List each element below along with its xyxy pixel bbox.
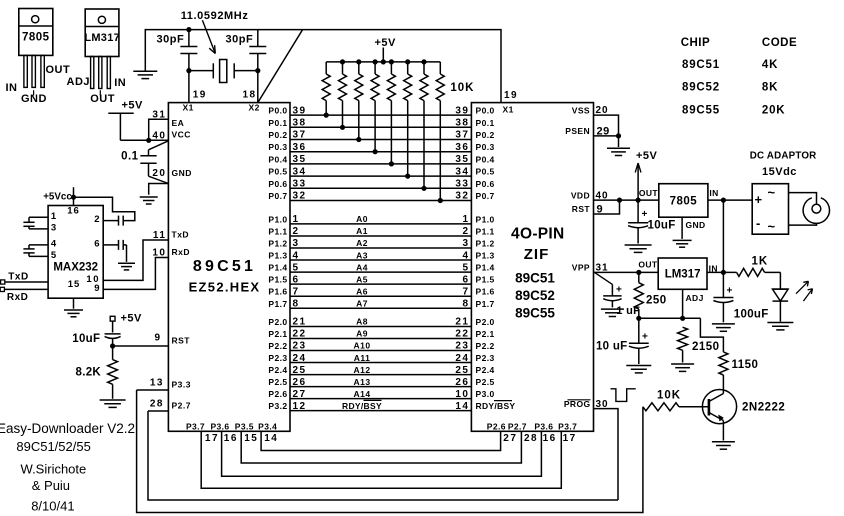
label P2.1 (ZIF) <box>476 329 495 339</box>
svg-text:LM317: LM317 <box>665 268 701 280</box>
svg-text:23: 23 <box>455 341 469 352</box>
svg-text:-: - <box>756 216 760 231</box>
pin number 35 (ZIF) <box>455 154 469 165</box>
svg-text:35: 35 <box>293 154 307 165</box>
pin number 17 (ZIF bottom) <box>563 433 577 444</box>
pin number 27 (89C51) <box>293 389 307 400</box>
pin RxD (10) wire to MAX232 pin9 <box>103 258 168 290</box>
svg-text:40: 40 <box>152 131 166 142</box>
pin number 19 (ZIF X1) <box>504 90 518 101</box>
svg-text:RST: RST <box>572 204 591 214</box>
+5Vcc stub and node <box>71 187 76 205</box>
title & Puiu <box>32 478 70 493</box>
label P0.5 (89C51) <box>268 167 287 177</box>
wire P0.2 row (89C51 pin 37 to ZIF) <box>290 139 471 141</box>
label P1.0 (89C51) <box>268 214 287 224</box>
voltage regulator LM317 box <box>658 258 707 289</box>
svg-text:21: 21 <box>455 317 469 328</box>
svg-text:OUT: OUT <box>46 64 71 76</box>
resistor 10K network element 6 <box>404 62 412 176</box>
wire 89C51 P2.7 to ZIF PROG <box>148 411 618 500</box>
svg-text:P1.2: P1.2 <box>476 239 495 249</box>
LED light arrows <box>796 281 813 301</box>
pin number 24 (89C51) <box>293 353 307 364</box>
label P1.5 (ZIF) <box>476 275 495 285</box>
crystal Y1 <box>189 60 258 83</box>
wire P2.1 row / net A9 <box>290 338 471 340</box>
svg-text:28: 28 <box>524 433 538 444</box>
svg-text:36: 36 <box>455 142 469 153</box>
ground (10uF VPP) <box>626 366 651 373</box>
label P0.4 (89C51) <box>268 154 287 164</box>
pin VDD (40) wire <box>594 199 659 201</box>
wire X2 to ZIF X1 <box>258 30 501 103</box>
label P0.2 (89C51) <box>268 130 287 140</box>
label DC ADAPTOR <box>750 151 817 162</box>
LED D1 <box>773 289 789 322</box>
svg-text:89C51: 89C51 <box>193 258 256 275</box>
svg-text:1 uF: 1 uF <box>616 305 640 317</box>
pin number 21 (ZIF) <box>455 317 469 328</box>
pin number 2 (89C51) <box>293 226 300 237</box>
svg-text:37: 37 <box>455 130 469 141</box>
pin 9 wire number <box>94 283 99 294</box>
label P1.3 (ZIF) <box>476 251 495 261</box>
pin ADJ stub (LM317) <box>682 289 684 318</box>
label GND <box>172 168 192 178</box>
label 30pF right <box>226 34 254 46</box>
text 40-PIN <box>511 226 564 243</box>
svg-text:7: 7 <box>462 286 469 297</box>
ground (89C51 GND pin) <box>140 197 158 204</box>
svg-text:A8: A8 <box>356 317 368 327</box>
label X2 inside 89C51 <box>249 103 260 113</box>
svg-text:CODE: CODE <box>762 37 797 49</box>
wire P2.2 row / net A10 <box>290 350 471 352</box>
label TxD (terminal) <box>8 272 28 283</box>
label P0.1 (89C51) <box>268 118 287 128</box>
pin number 18 (89C51 X2) <box>243 90 257 101</box>
resistor 2150 <box>678 327 688 362</box>
svg-text:2150: 2150 <box>692 341 720 353</box>
svg-text:23: 23 <box>293 341 307 352</box>
pin number 2 <box>94 214 99 225</box>
svg-text:4: 4 <box>51 238 57 249</box>
label P3.6 (ZIF bottom) <box>534 421 553 431</box>
net label A13 <box>353 377 370 387</box>
label PSEN <box>565 126 590 136</box>
node crystal left junction <box>186 68 191 73</box>
svg-text:89C52: 89C52 <box>682 82 720 94</box>
wire 89C51 P3.4 to ZIF P2.6 <box>261 431 501 450</box>
svg-text:18: 18 <box>243 90 257 101</box>
svg-text:10uF: 10uF <box>72 333 100 345</box>
svg-text:2: 2 <box>462 226 469 237</box>
pin number 16 (89C51 bottom) <box>224 433 238 444</box>
svg-text:ZIF: ZIF <box>524 246 550 263</box>
label ADJ (LM317) <box>686 293 704 303</box>
text ZIF <box>524 246 550 263</box>
svg-text:32: 32 <box>455 191 469 202</box>
svg-text:PSEN: PSEN <box>565 126 590 136</box>
pin number 2 (ZIF) <box>462 226 469 237</box>
pin number 22 (ZIF) <box>455 329 469 340</box>
svg-text:250: 250 <box>646 295 667 307</box>
label 0.1 <box>121 151 139 163</box>
pin number 16 (ZIF bottom) <box>543 433 557 444</box>
capacitor C1 (MAX232 pins 1-3) <box>23 217 48 229</box>
pin number 6 <box>94 238 99 249</box>
svg-text:P2.2: P2.2 <box>476 341 495 351</box>
wire DC adaptor to plug (top) <box>789 193 817 205</box>
svg-text:25: 25 <box>455 365 469 376</box>
wire P1.5 row / net A5 <box>290 283 471 285</box>
svg-text:RDY/BSY: RDY/BSY <box>476 401 516 411</box>
svg-text:100uF: 100uF <box>734 308 769 320</box>
svg-text:P1.6: P1.6 <box>268 287 287 297</box>
svg-text:A14: A14 <box>353 389 370 399</box>
svg-text:34: 34 <box>293 166 307 177</box>
label P1.0 (ZIF) <box>476 214 495 224</box>
capacitor C4 (MAX232 pin6) <box>103 240 126 262</box>
label IN (7805) <box>709 188 718 198</box>
svg-text:P0.4: P0.4 <box>268 154 287 164</box>
label P2.3 (ZIF) <box>476 353 495 363</box>
svg-text:VDD: VDD <box>571 190 590 200</box>
svg-text:33: 33 <box>293 179 307 190</box>
svg-text:P1.7: P1.7 <box>268 299 287 309</box>
svg-text:P0.3: P0.3 <box>476 142 495 152</box>
7805 pin label IN <box>6 82 18 94</box>
svg-text:P1.1: P1.1 <box>268 226 287 236</box>
label RDY/BSY (ZIF) <box>476 401 516 412</box>
svg-text:X2: X2 <box>249 103 260 113</box>
svg-text:3: 3 <box>462 238 469 249</box>
pin number 36 (89C51) <box>293 142 307 153</box>
capacitor C2 (MAX232 pins 4-5) <box>23 245 48 257</box>
label 10uF (reset) <box>72 333 100 345</box>
svg-text:38: 38 <box>293 118 307 129</box>
node bus junction <box>340 59 345 64</box>
svg-text:P0.7: P0.7 <box>268 191 287 201</box>
capacitor 10uF (reset) <box>105 334 121 346</box>
svg-text:P0.1: P0.1 <box>268 118 287 128</box>
wire P2.6 row / net A14 <box>290 398 471 400</box>
pin number 33 (89C51) <box>293 179 307 190</box>
svg-text:LM317: LM317 <box>84 32 120 44</box>
label P2.6 (ZIF bottom) <box>487 421 506 431</box>
+5V power tap (89C51 supply) <box>108 113 133 140</box>
label P0.0 (89C51) <box>268 106 287 116</box>
svg-text:P0.4: P0.4 <box>476 154 495 164</box>
label GND (7805) and stub <box>682 217 705 239</box>
node VDD cap junction <box>636 198 641 203</box>
svg-text:8: 8 <box>462 298 469 309</box>
wire ADJ node to 1150 <box>700 318 723 352</box>
label 30pF left <box>157 34 185 46</box>
svg-text:22: 22 <box>293 329 307 340</box>
resistor 10K (base) <box>643 403 709 411</box>
svg-text:OUT: OUT <box>90 93 115 105</box>
svg-text:P0.0: P0.0 <box>476 106 495 116</box>
label P0.7 (89C51) <box>268 191 287 201</box>
svg-text:X1: X1 <box>503 105 514 115</box>
capacitor 10uF (VDD) <box>628 200 648 243</box>
svg-text:+5V: +5V <box>122 100 144 112</box>
pin number 12 (89C51) <box>293 401 307 412</box>
pin number 37 (ZIF) <box>455 130 469 141</box>
svg-text:29: 29 <box>597 126 610 138</box>
svg-text:P3.7: P3.7 <box>558 421 577 431</box>
svg-text:DC ADAPTOR: DC ADAPTOR <box>750 151 817 162</box>
pin GND (20) wire <box>149 184 169 195</box>
wire P1.6 row / net A6 <box>290 295 471 297</box>
node P0.3 junction <box>373 149 378 154</box>
wire P2.0 row / net A8 <box>290 326 471 328</box>
label EA <box>172 118 185 128</box>
svg-text:30: 30 <box>596 399 609 410</box>
svg-text:10uF: 10uF <box>648 220 676 232</box>
wire DC adaptor to plug (bottom) <box>789 223 817 225</box>
capacitor 10uF (VPP adj) <box>629 318 649 364</box>
ground (100uF) <box>712 324 735 331</box>
svg-text:A12: A12 <box>353 365 370 375</box>
pin number 8 (ZIF) <box>462 298 469 309</box>
label P2.4 (89C51) <box>268 365 287 375</box>
pin number 24 (ZIF) <box>455 353 469 364</box>
wire P2.3 row / net A11 <box>290 362 471 364</box>
svg-text:4K: 4K <box>762 59 778 71</box>
label P3.3 (89C51 left) <box>172 380 192 390</box>
svg-text:P2.4: P2.4 <box>268 365 287 375</box>
wire +5Vcc to pin2 capacitor <box>74 197 135 220</box>
pin number 1 (89C51) <box>293 214 300 225</box>
svg-text:P3.0: P3.0 <box>476 389 495 399</box>
node P0.1 junction <box>340 125 345 130</box>
svg-text:2: 2 <box>293 226 300 237</box>
svg-text:27: 27 <box>503 433 517 444</box>
svg-text:9: 9 <box>154 333 161 344</box>
text EZ52.HEX <box>189 280 261 295</box>
label P3.2 (89C51) <box>268 401 287 411</box>
svg-text:W.Sirichote: W.Sirichote <box>21 461 87 476</box>
capacitor 100uF <box>713 272 733 322</box>
table row 89C52 8K <box>682 82 778 94</box>
svg-text:P0.3: P0.3 <box>268 142 287 152</box>
svg-text:P2.2: P2.2 <box>268 341 287 351</box>
svg-text:RDY/BSY: RDY/BSY <box>342 401 382 411</box>
svg-text:TxD: TxD <box>172 230 190 240</box>
pin number 39 (89C51) <box>293 105 307 116</box>
ground (8.2K) <box>100 400 126 407</box>
svg-text:8/10/41: 8/10/41 <box>31 499 74 514</box>
+5V terminal (RST circuit) <box>110 316 115 332</box>
svg-text:P1.3: P1.3 <box>268 251 287 261</box>
svg-text:24: 24 <box>455 353 469 364</box>
svg-text:10: 10 <box>455 389 469 400</box>
svg-text:2N2222: 2N2222 <box>742 402 785 414</box>
label P3.4 (89C51 bottom) <box>258 421 277 431</box>
label P0.1 (ZIF) <box>476 118 495 128</box>
svg-text:P2.5: P2.5 <box>476 377 495 387</box>
PROG pulse waveform symbol <box>611 389 636 402</box>
pin number 10 <box>152 248 166 259</box>
pin number 31 <box>152 110 166 121</box>
svg-text:12: 12 <box>293 401 307 412</box>
label P1.4 (ZIF) <box>476 263 495 273</box>
wire P1.1 row / net A1 <box>290 235 471 237</box>
pin number 30 (ZIF PROG) <box>596 399 609 410</box>
svg-text:P1.4: P1.4 <box>268 263 287 273</box>
label P0.4 (ZIF) <box>476 154 495 164</box>
label P1.5 (89C51) <box>268 275 287 285</box>
label P0.7 (ZIF) <box>476 191 495 201</box>
label P1.7 (ZIF) <box>476 299 495 309</box>
svg-text:3: 3 <box>51 222 56 233</box>
table row 89C55 20K <box>682 105 785 117</box>
pin number 33 (ZIF) <box>455 179 469 190</box>
label OUT (LM317) <box>638 260 658 270</box>
label OUT (7805) <box>639 188 659 198</box>
label P2.2 (89C51) <box>268 341 287 351</box>
label X1 inside ZIF <box>503 105 514 115</box>
svg-text:5: 5 <box>462 262 469 273</box>
pin number 4 (ZIF) <box>462 250 469 261</box>
label P3.5 (89C51 bottom) <box>235 421 254 431</box>
label P2.0 (ZIF) <box>476 317 495 327</box>
wire P1.2 row / net A2 <box>290 247 471 249</box>
title 89C51/52/55 <box>16 439 90 454</box>
svg-text:Easy-Downloader V2.2: Easy-Downloader V2.2 <box>0 421 135 436</box>
pin number 23 (89C51) <box>293 341 307 352</box>
ground (2N2222 emitter) <box>712 442 735 449</box>
node bus junction <box>405 59 410 64</box>
pin number 32 (89C51) <box>293 191 307 202</box>
label P0.6 (89C51) <box>268 179 287 189</box>
svg-text:16: 16 <box>224 433 238 444</box>
svg-text:24: 24 <box>293 353 307 364</box>
label P0.2 (ZIF) <box>476 130 495 140</box>
text 89C52 (ZIF) <box>515 288 555 303</box>
wire LM317 IN to 1K <box>707 271 737 273</box>
svg-text:26: 26 <box>293 377 307 388</box>
svg-text:4: 4 <box>462 250 469 261</box>
LM317 pin label OUT <box>90 90 115 105</box>
pin RST (9) wire <box>113 345 169 347</box>
pin number 9 <box>154 333 161 344</box>
node P0.0 junction <box>324 113 329 118</box>
svg-text:19: 19 <box>193 90 207 101</box>
net label A9 <box>356 329 368 339</box>
svg-text:7: 7 <box>293 286 300 297</box>
pin number 6 (ZIF) <box>462 274 469 285</box>
svg-text:9: 9 <box>94 283 99 294</box>
svg-text:89C51: 89C51 <box>682 59 720 71</box>
svg-text:A0: A0 <box>356 214 368 224</box>
svg-text:30pF: 30pF <box>157 34 185 46</box>
pin 10 wire (see TxD) <box>86 274 100 285</box>
svg-text:P2.0: P2.0 <box>476 317 495 327</box>
svg-text:+: + <box>642 209 648 220</box>
IC U1 89C51 body <box>168 103 290 432</box>
pin number 3 (ZIF) <box>462 238 469 249</box>
wire 7805 IN to DC adaptor <box>708 199 752 201</box>
svg-text:28: 28 <box>150 399 164 410</box>
pin number 27 (ZIF bottom) <box>503 433 517 444</box>
pin VSS (20) wire <box>594 115 619 136</box>
svg-text:32: 32 <box>293 191 307 202</box>
pin number 22 (89C51) <box>293 329 307 340</box>
ground (MAX232 pin6 cap) <box>118 263 135 270</box>
svg-text:P1.5: P1.5 <box>476 275 495 285</box>
svg-text:IN: IN <box>6 82 18 94</box>
capacitor 0.1 (decoupling) <box>140 141 168 184</box>
pin number 40 (ZIF VDD) <box>596 190 609 201</box>
label P3.0 (ZIF) <box>476 389 495 399</box>
pin number 26 (89C51) <box>293 377 307 388</box>
label P1.7 (89C51) <box>268 299 287 309</box>
svg-text:P0.6: P0.6 <box>268 179 287 189</box>
label +5Vcc <box>43 191 72 202</box>
capacitor 30pF left <box>180 30 197 71</box>
wire P0.5 row (89C51 pin 34 to ZIF) <box>290 175 471 177</box>
pin P3.3 (13) wire <box>137 389 169 391</box>
label P2.1 (89C51) <box>268 329 287 339</box>
svg-text:P0.5: P0.5 <box>268 167 287 177</box>
svg-text:P1.6: P1.6 <box>476 287 495 297</box>
svg-text:P2.6: P2.6 <box>487 421 506 431</box>
node 7805 IN junction <box>721 198 726 203</box>
svg-text:25: 25 <box>293 365 307 376</box>
wire P1.3 row / net A3 <box>290 259 471 261</box>
svg-text:P0.6: P0.6 <box>476 179 495 189</box>
svg-text:15Vdc: 15Vdc <box>762 166 797 178</box>
svg-text:31: 31 <box>152 110 166 121</box>
pin number 8 (89C51) <box>293 298 300 309</box>
svg-text:P2.7: P2.7 <box>508 421 527 431</box>
svg-text:5: 5 <box>293 262 300 273</box>
svg-text:A10: A10 <box>353 341 370 351</box>
svg-text:P1.0: P1.0 <box>268 214 287 224</box>
svg-text:6: 6 <box>462 274 469 285</box>
svg-text:27: 27 <box>293 389 307 400</box>
svg-text:89C52: 89C52 <box>515 288 555 303</box>
svg-text:VCC: VCC <box>172 130 191 140</box>
svg-text:P2.6: P2.6 <box>268 389 287 399</box>
svg-text:13: 13 <box>150 378 164 389</box>
voltage regulator 7805 box <box>659 184 708 218</box>
DC plug symbol <box>803 198 829 224</box>
wire X1 stub (pin 19) <box>188 71 190 103</box>
label P0.6 (ZIF) <box>476 179 495 189</box>
label 15Vdc <box>762 166 797 178</box>
pin number 25 (89C51) <box>293 365 307 376</box>
label VDD <box>571 190 590 200</box>
svg-text:P2.3: P2.3 <box>268 353 287 363</box>
svg-text:P1.0: P1.0 <box>476 214 495 224</box>
pin VPP (31) wire <box>594 271 659 273</box>
svg-text:19: 19 <box>504 90 518 101</box>
pin number 34 (89C51) <box>293 166 307 177</box>
label P2.6 (89C51) <box>268 389 287 399</box>
net label A11 <box>354 353 371 363</box>
pin number 3 <box>51 222 56 233</box>
svg-text:89C51/52/55: 89C51/52/55 <box>16 439 90 454</box>
svg-text:0.1: 0.1 <box>121 151 139 163</box>
pin number 14 (89C51 bottom) <box>264 433 278 444</box>
label 8.2K <box>76 367 102 379</box>
label +5V (89C51 supply) <box>122 100 144 112</box>
